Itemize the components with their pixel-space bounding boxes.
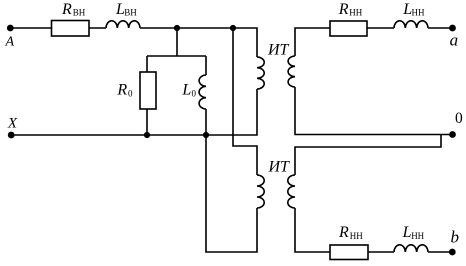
node junction top 1 (174, 25, 180, 31)
wire R0 bottom lead (146, 109, 148, 135)
wire lower secondary bottom (295, 208, 330, 252)
svg-text:R: R (116, 82, 127, 99)
svg-text:0: 0 (192, 88, 197, 98)
svg-text:0: 0 (455, 110, 463, 127)
wire R_HH to L_HH lower (368, 251, 394, 253)
svg-text:ВН: ВН (73, 8, 86, 18)
inductor L3 (L_HH lower) (394, 245, 428, 252)
svg-text:X: X (7, 116, 18, 132)
svg-text:ИТ: ИТ (267, 42, 290, 59)
terminal X (8, 132, 15, 139)
wire lower secondary top to 0 (295, 135, 441, 176)
node junction bottom L0 (203, 132, 209, 138)
resistor R2 (R_HH upper) (330, 21, 367, 36)
resistor R0 (140, 72, 156, 109)
wire magnetizing tee (147, 55, 206, 57)
svg-text:A: A (5, 35, 15, 50)
node junction top 2 (230, 25, 236, 31)
terminal A (7, 25, 14, 32)
svg-text:b: b (451, 228, 460, 247)
svg-text:НН: НН (411, 231, 424, 241)
svg-text:ИТ: ИТ (268, 159, 291, 176)
resistor R3 (R_HH lower) (330, 245, 368, 260)
wire L_HH to terminal a (428, 27, 452, 29)
wire magnetizing stem (176, 28, 178, 56)
svg-text:НН: НН (412, 8, 425, 18)
terminal b (449, 249, 456, 256)
wire bottom rail X to winding (11, 89, 257, 135)
transformer winding W3 primary lower (257, 175, 264, 208)
inductor L2 (L_HH upper) (394, 21, 428, 28)
terminal 0 (449, 131, 456, 138)
node junction bottom R0 (144, 132, 150, 138)
svg-text:R: R (338, 1, 349, 18)
wire lower primary feed (233, 28, 257, 175)
transformer winding W4 secondary lower (288, 175, 295, 208)
svg-text:0: 0 (128, 88, 133, 98)
wire upper secondary bottom to 0 (295, 87, 452, 135)
svg-text:R: R (61, 1, 72, 18)
svg-text:НН: НН (350, 231, 363, 241)
inductor L0 (199, 75, 206, 109)
wire R_BH to L_BH (89, 27, 106, 29)
resistor R1 (R_BH) (52, 21, 90, 37)
wire R0 top lead (146, 56, 148, 72)
transformer winding W1 primary upper (257, 57, 264, 89)
wire R_HH to L_HH upper (367, 27, 394, 29)
wire lower primary return (206, 135, 257, 252)
terminal a (449, 25, 456, 32)
wire upper secondary top (295, 28, 330, 56)
svg-text:ВН: ВН (124, 8, 137, 18)
wire A to R_BH (10, 27, 52, 29)
svg-text:a: a (450, 30, 459, 49)
wire L_HH to terminal b (428, 251, 452, 253)
inductor L1 (L_BH) (106, 21, 140, 28)
svg-text:L: L (181, 82, 191, 99)
svg-text:R: R (338, 224, 349, 241)
wire L0 top lead (205, 56, 207, 75)
wire top rail to corner (140, 28, 257, 57)
wire L0 bottom lead (205, 109, 207, 135)
svg-text:НН: НН (349, 8, 362, 18)
transformer winding W2 secondary upper (288, 56, 295, 87)
svg-text:L: L (402, 224, 412, 241)
